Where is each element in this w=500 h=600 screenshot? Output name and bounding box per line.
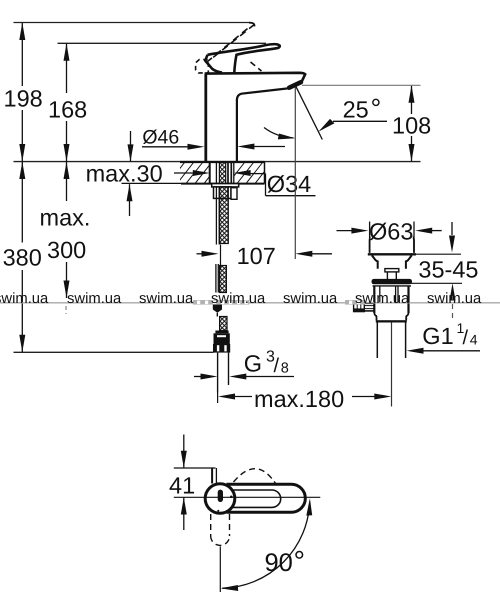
deck hatch right [228, 162, 281, 184]
svg-text:107: 107 [237, 243, 276, 269]
dimension 168 [48, 43, 87, 161]
svg-text:swim.ua: swim.ua [67, 291, 122, 307]
svg-text:168: 168 [48, 96, 87, 122]
mounting nut [214, 187, 232, 199]
svg-text:°: ° [294, 546, 306, 578]
svg-text:108: 108 [392, 113, 431, 139]
faucet body outline [205, 73, 306, 162]
svg-text:swim.ua: swim.ua [427, 291, 482, 307]
mounting bolt stub [231, 188, 237, 200]
bottom view: 41 dimension [169, 435, 216, 531]
wire countertop deck line [14, 161, 421, 163]
dimension 198 [4, 23, 43, 162]
svg-text:380: 380 [3, 245, 42, 271]
bottom view: cartridge slot (black) [218, 490, 223, 502]
bottom view: centerlines [204, 496, 320, 498]
flexible hose upper section [220, 187, 229, 244]
drain nut band [376, 316, 378, 320]
wire top reference line 198 level [14, 22, 251, 24]
spout stream vertical reference [294, 85, 296, 259]
G3/8 hose end fitting (dark) [215, 331, 228, 334]
svg-text:swim.ua: swim.ua [283, 291, 338, 307]
svg-text:35-45: 35-45 [418, 256, 478, 282]
svg-text:swim.ua: swim.ua [139, 291, 194, 307]
deck cross-section outline [180, 161, 265, 163]
label G 3/8 with arrows [194, 349, 294, 380]
second hose strip upper [215, 187, 217, 245]
wire hose end reference line [14, 351, 214, 353]
dimension Ø46 [142, 126, 285, 149]
svg-text:max.: max. [40, 205, 91, 231]
dimension Ø63 [337, 218, 442, 244]
dimension 35-45 [411, 222, 479, 318]
svg-text:8: 8 [281, 360, 289, 376]
svg-text:41: 41 [169, 473, 195, 499]
dimension 108 [392, 85, 431, 161]
bottom view: lever outer stadium [227, 484, 306, 512]
svg-text:G1: G1 [422, 323, 453, 349]
drain valve body [374, 286, 408, 313]
svg-text:Ø63: Ø63 [369, 218, 413, 244]
white mask behind Ø63 label [371, 221, 413, 240]
svg-text:G: G [244, 351, 262, 377]
faucet shank through deck [210, 162, 234, 184]
svg-text:/: / [463, 327, 469, 349]
svg-text:swim.ua: swim.ua [211, 291, 266, 307]
svg-text:max.180: max.180 [254, 386, 344, 412]
bottom view: handle pivot circle [205, 484, 235, 514]
watermark texts swim.ua [0, 291, 482, 307]
svg-text:4: 4 [470, 331, 478, 347]
dimension 380 [3, 162, 42, 353]
watermark band line [0, 302, 500, 304]
drain dome bottom edge [368, 253, 416, 255]
bottom view: lever inner line [231, 490, 281, 507]
faucet handle raised (dashed) [196, 23, 262, 73]
bottom view: dashed lever down position [211, 514, 230, 545]
dimension 107 [197, 243, 333, 270]
flexible hose lower section [220, 266, 227, 293]
deck hatch left [168, 162, 221, 184]
second hose strip lower [215, 264, 217, 293]
wire reference line 168 level [58, 42, 267, 44]
svg-text:Ø46: Ø46 [142, 126, 179, 148]
svg-text:25: 25 [343, 96, 369, 122]
bottom view: small dots [230, 496, 233, 499]
svg-text:°: ° [371, 93, 382, 123]
mounting washer [212, 184, 239, 187]
hose segment to G3/8 fitting [216, 313, 218, 317]
drain flange seal (black) [372, 279, 413, 284]
svg-text:198: 198 [4, 86, 43, 112]
label G1 1/4 with leader [407, 320, 481, 354]
dimension max.30 [86, 131, 181, 216]
drain body fillet to nut [374, 313, 377, 316]
watermark chain over hoses [193, 300, 365, 305]
drain: Ø63 extension lines [0, 0, 1, 1]
svg-text:swim.ua: swim.ua [0, 291, 49, 307]
dimension max.180 [218, 386, 391, 412]
bottom view: dashed swing arc [234, 469, 277, 485]
spout stream horizontal reference (gray) [302, 84, 421, 86]
drain dome taper/neck [372, 255, 378, 268]
svg-text:swim.ua: swim.ua [355, 291, 410, 307]
drain stem lugs [385, 269, 399, 279]
svg-text:90: 90 [265, 549, 293, 577]
dimension max.300 [40, 162, 91, 314]
bottom view: spout stub [212, 468, 216, 484]
90 degree swing arc with arrows [222, 502, 309, 589]
threaded hose section in shank [219, 162, 225, 184]
dimension Ø34 with label box [174, 170, 316, 197]
G3/8 connection tube [217, 353, 219, 393]
drain side overflow pipe [354, 303, 375, 312]
svg-text:max.30: max.30 [86, 161, 163, 187]
svg-text:/: / [274, 355, 280, 377]
faucet handle (solid, lowered) [205, 44, 280, 72]
label 25 degrees with leader arrow [318, 93, 387, 131]
drain centerline [391, 323, 393, 407]
svg-text:Ø34: Ø34 [267, 171, 311, 197]
25 degree swing arc with arrowhead [264, 128, 294, 138]
25 degree diagonal stream line [296, 86, 323, 139]
faucet aerator lens (filled) [289, 82, 301, 88]
svg-text:300: 300 [47, 237, 86, 263]
drain pop-up valve: dome cap [370, 236, 414, 253]
drain tailpipe G1 1/4 [376, 323, 378, 359]
short hose cone end fitting [213, 303, 222, 313]
